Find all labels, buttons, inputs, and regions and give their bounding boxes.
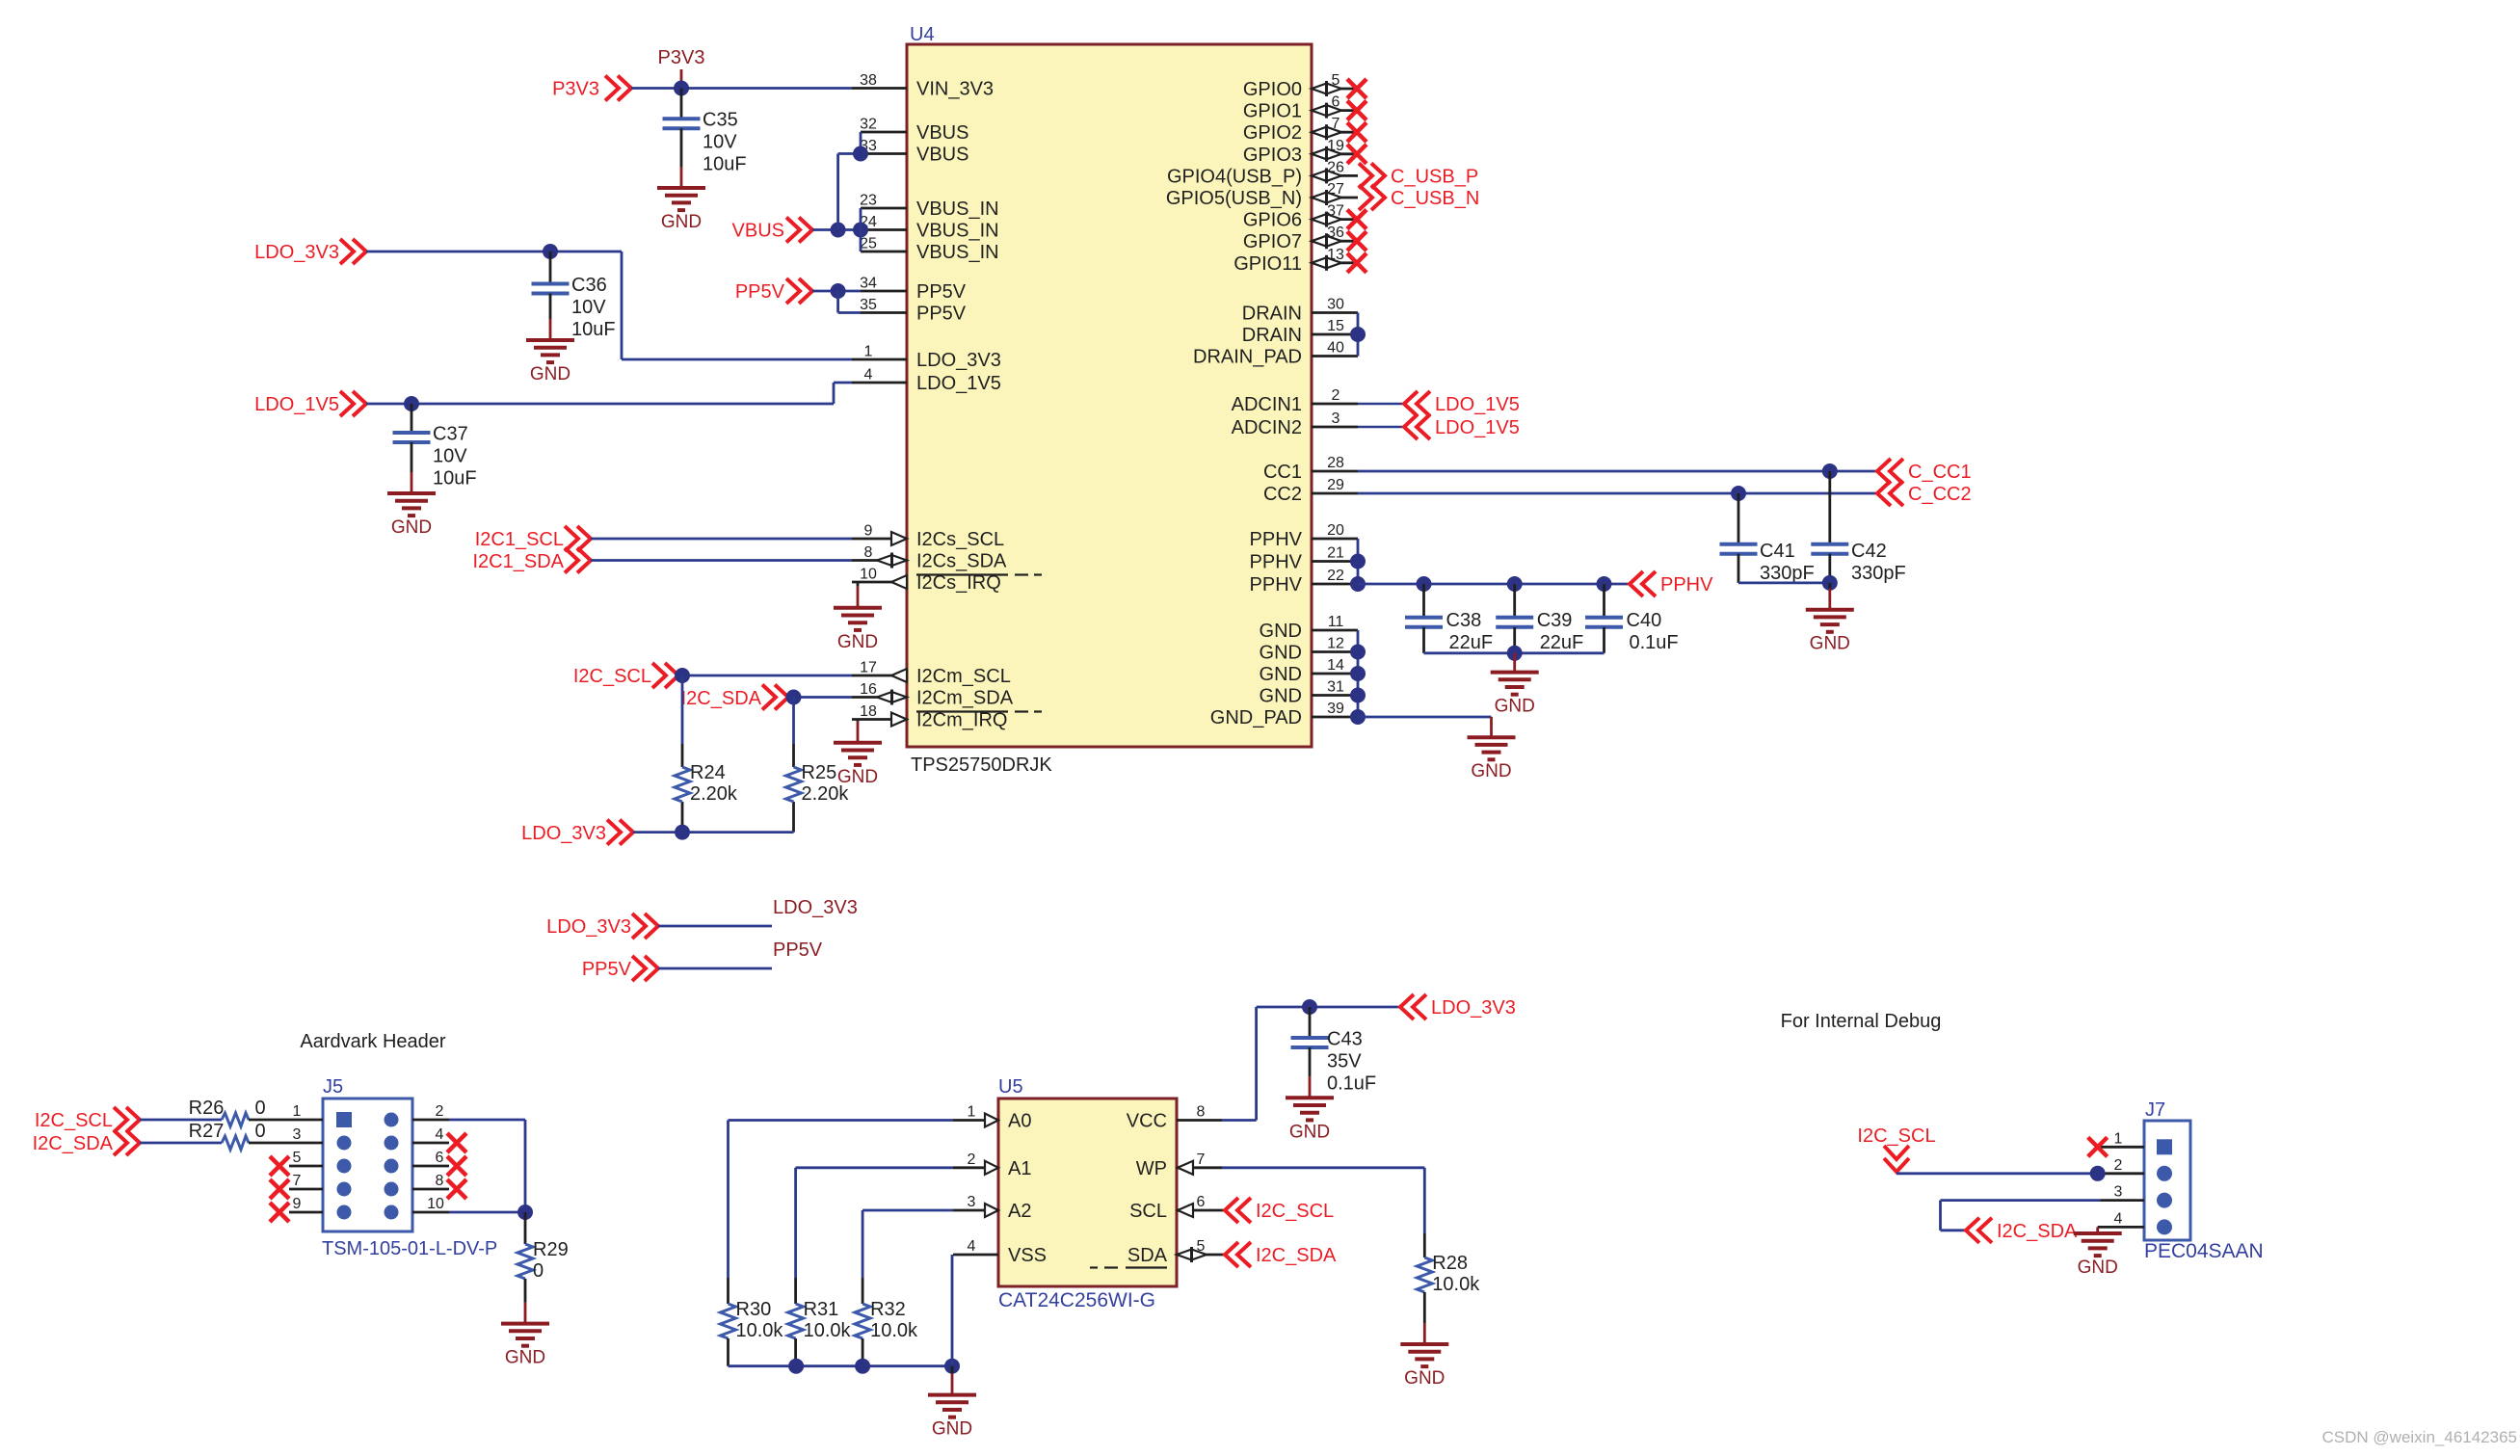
svg-text:10uF: 10uF	[433, 468, 477, 490]
svg-text:GPIO0: GPIO0	[1243, 79, 1302, 100]
svg-text:1: 1	[2114, 1130, 2123, 1147]
svg-text:GND: GND	[932, 1419, 972, 1440]
svg-text:15: 15	[1327, 318, 1344, 334]
svg-text:31: 31	[1327, 679, 1344, 696]
svg-text:C41: C41	[1760, 541, 1795, 562]
svg-text:DRAIN: DRAIN	[1242, 325, 1302, 346]
svg-text:1: 1	[864, 344, 873, 360]
svg-text:18: 18	[860, 703, 877, 720]
svg-text:LDO_3V3: LDO_3V3	[521, 823, 606, 844]
svg-text:C39: C39	[1537, 610, 1573, 631]
svg-text:R27: R27	[189, 1121, 225, 1142]
svg-text:LDO_3V3: LDO_3V3	[1431, 997, 1516, 1019]
svg-text:C43: C43	[1327, 1029, 1363, 1050]
svg-text:R31: R31	[804, 1299, 839, 1320]
svg-text:GND: GND	[505, 1348, 545, 1368]
svg-text:GND: GND	[391, 517, 432, 538]
svg-text:22uF: 22uF	[1449, 632, 1494, 653]
svg-text:GND_PAD: GND_PAD	[1210, 707, 1302, 728]
svg-text:10V: 10V	[703, 132, 737, 153]
svg-text:LDO_1V5: LDO_1V5	[1435, 394, 1520, 415]
svg-text:20: 20	[1327, 522, 1344, 539]
svg-text:GND: GND	[661, 212, 702, 232]
svg-text:0.1uF: 0.1uF	[1327, 1073, 1376, 1095]
svg-text:R26: R26	[189, 1098, 225, 1119]
svg-text:9: 9	[864, 523, 873, 540]
svg-text:LDO_3V3: LDO_3V3	[254, 242, 339, 263]
svg-text:R28: R28	[1432, 1253, 1468, 1274]
svg-text:U4: U4	[910, 24, 935, 45]
svg-text:VBUS_IN: VBUS_IN	[916, 199, 999, 220]
svg-text:LDO_1V5: LDO_1V5	[254, 394, 339, 415]
svg-text:C_CC2: C_CC2	[1908, 484, 1972, 505]
svg-text:0: 0	[254, 1121, 265, 1142]
svg-text:VBUS: VBUS	[732, 221, 784, 242]
svg-text:SCL: SCL	[1129, 1201, 1167, 1222]
svg-text:I2C_SCL: I2C_SCL	[1256, 1201, 1334, 1222]
svg-text:C_USB_N: C_USB_N	[1391, 188, 1479, 209]
svg-text:12: 12	[1327, 636, 1344, 652]
svg-text:32: 32	[860, 117, 877, 133]
svg-text:8: 8	[864, 544, 873, 561]
svg-text:GND: GND	[1810, 634, 1850, 654]
svg-text:C_USB_P: C_USB_P	[1391, 166, 1478, 187]
svg-text:10.0k: 10.0k	[1432, 1274, 1480, 1295]
svg-text:PP5V: PP5V	[582, 959, 632, 980]
svg-text:I2C_SDA: I2C_SDA	[1997, 1221, 2078, 1242]
svg-text:17: 17	[860, 660, 877, 676]
svg-text:I2C1_SDA: I2C1_SDA	[473, 551, 565, 572]
svg-text:6: 6	[436, 1150, 444, 1166]
svg-text:10V: 10V	[571, 297, 606, 318]
svg-text:LDO_3V3: LDO_3V3	[546, 916, 631, 938]
svg-text:GPIO1: GPIO1	[1243, 101, 1302, 122]
svg-text:330pF: 330pF	[1760, 563, 1815, 584]
svg-text:PPHV: PPHV	[1250, 574, 1303, 596]
svg-text:I2C_SCL: I2C_SCL	[573, 666, 651, 687]
svg-text:I2C_SDA: I2C_SDA	[33, 1133, 114, 1154]
svg-text:PP5V: PP5V	[916, 281, 967, 303]
svg-text:8: 8	[436, 1173, 444, 1189]
svg-text:I2C_SCL: I2C_SCL	[35, 1110, 113, 1131]
svg-text:P3V3: P3V3	[658, 47, 705, 68]
svg-text:ADCIN2: ADCIN2	[1232, 417, 1302, 438]
svg-text:GND: GND	[1260, 686, 1302, 707]
svg-text:29: 29	[1327, 477, 1344, 493]
svg-text:GND: GND	[837, 632, 878, 652]
svg-text:I2C_SCL: I2C_SCL	[1857, 1125, 1935, 1147]
svg-text:8: 8	[1197, 1104, 1206, 1121]
svg-text:GPIO3: GPIO3	[1243, 145, 1302, 166]
svg-text:I2Cs_SCL: I2Cs_SCL	[916, 529, 1004, 550]
svg-text:I2Cm_SCL: I2Cm_SCL	[916, 666, 1011, 687]
svg-text:14: 14	[1327, 657, 1344, 674]
svg-text:SDA: SDA	[1127, 1245, 1168, 1266]
svg-text:0: 0	[533, 1260, 544, 1282]
svg-text:2: 2	[968, 1152, 976, 1168]
svg-text:LDO_1V5: LDO_1V5	[1435, 417, 1520, 438]
svg-text:GND: GND	[1260, 643, 1302, 664]
svg-text:GND: GND	[1289, 1122, 1330, 1142]
svg-text:39: 39	[1327, 701, 1344, 717]
svg-text:PEC04SAAN: PEC04SAAN	[2144, 1240, 2264, 1262]
svg-text:VBUS: VBUS	[916, 122, 968, 144]
svg-text:GPIO5(USB_N): GPIO5(USB_N)	[1166, 188, 1302, 209]
svg-text:0: 0	[254, 1098, 265, 1119]
svg-text:I2Cm_SDA: I2Cm_SDA	[916, 688, 1014, 709]
svg-text:GPIO2: GPIO2	[1243, 122, 1302, 144]
svg-text:10uF: 10uF	[571, 319, 616, 340]
svg-text:LDO_1V5: LDO_1V5	[916, 373, 1001, 394]
svg-text:I2C1_SCL: I2C1_SCL	[475, 529, 564, 550]
svg-text:VSS: VSS	[1008, 1245, 1047, 1266]
svg-text:10: 10	[427, 1196, 444, 1212]
svg-text:PP5V: PP5V	[916, 304, 967, 325]
svg-text:1: 1	[293, 1103, 302, 1120]
svg-text:4: 4	[436, 1126, 444, 1143]
svg-text:A1: A1	[1008, 1158, 1031, 1179]
svg-text:DRAIN_PAD: DRAIN_PAD	[1193, 347, 1302, 368]
svg-text:PP5V: PP5V	[735, 281, 785, 303]
svg-text:For Internal Debug: For Internal Debug	[1781, 1011, 1942, 1032]
svg-text:35V: 35V	[1327, 1051, 1362, 1072]
svg-text:A0: A0	[1008, 1111, 1031, 1132]
svg-text:GND: GND	[530, 364, 570, 384]
svg-text:330pF: 330pF	[1851, 563, 1906, 584]
svg-text:LDO_3V3: LDO_3V3	[916, 350, 1001, 371]
svg-text:7: 7	[293, 1173, 302, 1189]
svg-text:C35: C35	[703, 110, 738, 131]
svg-text:9: 9	[293, 1196, 302, 1212]
svg-text:34: 34	[860, 276, 877, 292]
svg-text:GPIO11: GPIO11	[1233, 253, 1302, 275]
svg-text:ADCIN1: ADCIN1	[1232, 394, 1302, 415]
svg-text:C37: C37	[433, 424, 468, 445]
svg-text:VIN_3V3: VIN_3V3	[916, 79, 994, 100]
svg-text:10uF: 10uF	[703, 154, 747, 175]
svg-text:16: 16	[860, 681, 877, 698]
svg-text:R29: R29	[533, 1239, 569, 1260]
svg-text:35: 35	[860, 297, 877, 313]
svg-text:25: 25	[860, 236, 877, 252]
svg-text:30: 30	[1327, 297, 1344, 313]
svg-text:GND: GND	[2078, 1257, 2118, 1278]
svg-text:VBUS_IN: VBUS_IN	[916, 221, 999, 242]
svg-text:GND: GND	[1495, 697, 1535, 717]
svg-text:2: 2	[436, 1103, 444, 1120]
svg-text:GND: GND	[1404, 1368, 1445, 1389]
svg-text:38: 38	[860, 72, 877, 89]
svg-text:11: 11	[1328, 614, 1344, 630]
svg-text:PP5V: PP5V	[773, 940, 823, 961]
svg-text:A2: A2	[1008, 1201, 1031, 1222]
svg-text:40: 40	[1327, 340, 1344, 357]
svg-text:R24: R24	[690, 762, 726, 783]
svg-text:10.0k: 10.0k	[804, 1320, 852, 1341]
svg-text:I2Cs_SDA: I2Cs_SDA	[916, 551, 1007, 572]
svg-text:P3V3: P3V3	[552, 79, 599, 100]
svg-text:TSM-105-01-L-DV-P: TSM-105-01-L-DV-P	[322, 1238, 497, 1259]
svg-text:CAT24C256WI-G: CAT24C256WI-G	[998, 1289, 1155, 1311]
svg-text:3: 3	[1332, 410, 1340, 427]
svg-text:3: 3	[2114, 1184, 2123, 1201]
svg-text:2.20k: 2.20k	[690, 783, 738, 805]
svg-text:GND: GND	[837, 767, 878, 787]
svg-text:Aardvark Header: Aardvark Header	[300, 1031, 446, 1052]
svg-text:U5: U5	[998, 1076, 1023, 1098]
svg-text:2: 2	[1332, 387, 1340, 404]
svg-text:0.1uF: 0.1uF	[1630, 632, 1679, 653]
svg-text:R30: R30	[736, 1299, 772, 1320]
svg-text:C_CC1: C_CC1	[1908, 462, 1972, 483]
svg-text:10.0k: 10.0k	[870, 1320, 918, 1341]
svg-text:28: 28	[1327, 455, 1344, 471]
svg-text:GND: GND	[1260, 621, 1302, 642]
svg-text:CC1: CC1	[1263, 462, 1302, 483]
svg-text:GND: GND	[1260, 664, 1302, 685]
svg-text:21: 21	[1327, 545, 1344, 562]
svg-text:C40: C40	[1627, 610, 1662, 631]
svg-text:CC2: CC2	[1263, 484, 1302, 505]
svg-text:22: 22	[1327, 568, 1344, 584]
svg-text:5: 5	[293, 1150, 302, 1166]
svg-text:C38: C38	[1446, 610, 1482, 631]
svg-text:J5: J5	[323, 1076, 343, 1098]
svg-text:4: 4	[864, 367, 873, 384]
svg-text:PPHV: PPHV	[1250, 529, 1303, 550]
svg-text:GPIO4(USB_P): GPIO4(USB_P)	[1167, 166, 1302, 187]
svg-text:GND: GND	[1471, 761, 1511, 781]
svg-text:DRAIN: DRAIN	[1242, 304, 1302, 325]
svg-text:6: 6	[1197, 1194, 1206, 1210]
svg-text:4: 4	[968, 1238, 976, 1255]
svg-text:VBUS_IN: VBUS_IN	[916, 242, 999, 263]
svg-text:I2C_SDA: I2C_SDA	[1256, 1245, 1337, 1266]
svg-text:LDO_3V3: LDO_3V3	[773, 897, 858, 918]
svg-text:3: 3	[968, 1194, 976, 1210]
svg-text:R32: R32	[870, 1299, 906, 1320]
svg-text:PPHV: PPHV	[1660, 574, 1713, 596]
svg-text:2: 2	[2114, 1157, 2123, 1174]
svg-text:PPHV: PPHV	[1250, 552, 1303, 573]
svg-text:C42: C42	[1851, 541, 1887, 562]
svg-text:I2C_SDA: I2C_SDA	[681, 688, 762, 709]
svg-text:10V: 10V	[433, 446, 467, 467]
svg-text:10: 10	[860, 567, 877, 583]
svg-text:10.0k: 10.0k	[736, 1320, 784, 1341]
svg-text:TPS25750DRJK: TPS25750DRJK	[911, 754, 1052, 776]
svg-text:23: 23	[860, 193, 877, 209]
svg-text:4: 4	[2114, 1210, 2123, 1227]
svg-text:VBUS: VBUS	[916, 145, 968, 166]
svg-text:1: 1	[968, 1104, 976, 1121]
svg-text:CSDN @weixin_46142365: CSDN @weixin_46142365	[2322, 1428, 2517, 1446]
svg-text:7: 7	[1197, 1152, 1206, 1168]
svg-text:3: 3	[293, 1126, 302, 1143]
svg-text:GPIO6: GPIO6	[1243, 210, 1302, 231]
svg-text:VCC: VCC	[1127, 1111, 1167, 1132]
svg-text:I2Cm_IRQ: I2Cm_IRQ	[916, 710, 1007, 731]
svg-text:C36: C36	[571, 275, 607, 296]
svg-text:J7: J7	[2145, 1099, 2165, 1121]
svg-text:GPIO7: GPIO7	[1243, 231, 1302, 252]
svg-text:WP: WP	[1136, 1158, 1167, 1179]
svg-text:22uF: 22uF	[1540, 632, 1584, 653]
svg-text:R25: R25	[802, 762, 837, 783]
